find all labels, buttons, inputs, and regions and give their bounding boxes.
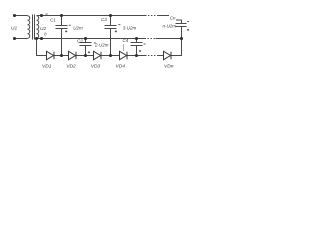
svg-text:VDn: VDn (164, 63, 174, 69)
svg-text:2·U2m: 2·U2m (94, 42, 109, 47)
svg-text:3·U2m: 3·U2m (123, 25, 137, 30)
svg-text:Cn: Cn (170, 16, 176, 21)
svg-text:C4: C4 (123, 38, 129, 43)
svg-text:VD4: VD4 (116, 63, 126, 69)
svg-text:U2m: U2m (73, 25, 83, 30)
svg-text:C3: C3 (101, 17, 107, 22)
svg-text:C1: C1 (50, 17, 56, 22)
svg-text:VD3: VD3 (91, 63, 101, 69)
svg-text:VD1: VD1 (42, 63, 52, 69)
svg-text:n·U2m: n·U2m (162, 23, 176, 28)
svg-text:VD2: VD2 (66, 63, 76, 69)
svg-text:U1: U1 (11, 25, 17, 31)
svg-text:C2: C2 (77, 38, 83, 43)
